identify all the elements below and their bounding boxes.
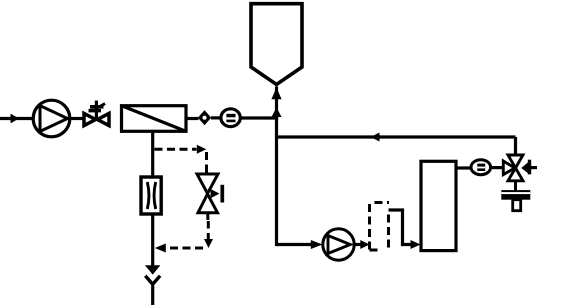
valve V1 actuator tip [100,104,105,107]
flow arrow pump P2 outlet [360,240,369,249]
wire return drop to valve V3 [514,137,517,156]
check valve diamond [198,110,211,125]
probe dashed foot [370,249,379,252]
pump P2 impeller triangle [328,236,350,254]
check valve center dot [202,116,206,120]
sensor M1 ellipse [221,109,240,127]
sensor M1 inner stripe [226,117,235,119]
heat exchanger W1 body [122,106,187,132]
control dashed line top [155,148,197,151]
sensor M2 inner stripe [477,167,485,169]
pump P1 impeller triangle [40,106,68,132]
valve V3 right bar [528,160,531,175]
flow element F1 left curve [147,182,149,209]
valve V2 right bar [220,185,224,203]
wire inlet line [0,117,34,120]
flow element F1 body [141,177,161,214]
silo B1 hopper [251,4,302,85]
probe dashed vertical 2 [387,215,390,252]
valve V1 actuator bar upper [90,105,104,109]
control dashed bottom [166,247,204,250]
wire return line [277,135,516,138]
control dashed drop [205,152,208,173]
sensor M1 inner block [226,114,235,122]
valve V3 right arrow [521,162,529,175]
flow arrow into column [411,240,421,249]
valve V3 top port [508,155,523,168]
flow arrow into pump P2 [311,240,323,249]
drain chevron [145,276,160,285]
control dashed drop 2 [207,221,210,240]
wire bottom feed line [277,243,312,246]
valve V2 bottom port [198,194,218,213]
wire check valve to sensor [211,116,222,119]
wire drain outlet [151,286,154,305]
valve V1 actuator bar lower [89,109,102,113]
probe dashed top [375,201,390,204]
control arrow right [197,145,207,154]
valve V2 top port [197,174,218,194]
flow arrow return (left) [371,133,380,142]
flow arrow inlet [11,114,20,124]
valve V1 body right triangle [97,113,109,125]
valve V1 actuator stem [95,101,98,119]
wire pump P2 outlet [354,243,361,246]
column B2 body [421,161,456,250]
wire step line [389,210,413,245]
heat exchanger W1 diagonal [122,106,187,132]
pump P2 circle [323,229,354,260]
wire column outlet [456,166,471,169]
wire valve V3 stub [531,166,537,169]
wire drain line [151,131,154,265]
wire sensor to junction [240,116,278,119]
valve V2 bottom stem [206,213,209,220]
drain flow arrow [145,265,161,274]
pump P1 circle [33,100,70,137]
valve V1 body left triangle [84,113,96,125]
flow element F1 right curve [154,182,156,209]
probe dashed vertical 1 [368,204,371,252]
actuator A3 stem [513,200,521,211]
wire W1 to check valve [186,117,199,120]
sensor M2 ellipse [471,160,491,175]
valve V3 bottom port [508,168,523,181]
sensor M2 inner block [477,164,485,171]
actuator A3 body [501,190,530,200]
control arrow left [155,244,166,253]
valve V3 left port [503,161,515,175]
valve V2 right arrow [211,189,220,198]
wire sensor M2 to valve V3 [491,166,504,169]
flow arrow up 2 [271,108,281,118]
wire riser to silo [275,87,278,247]
wire valve V3 to actuator [514,180,517,191]
actuator A3 stripe [501,192,530,194]
flow arrow up 1 [271,88,281,100]
control arrow down [204,239,213,248]
wire pump P1 to valve V1 [70,117,83,120]
